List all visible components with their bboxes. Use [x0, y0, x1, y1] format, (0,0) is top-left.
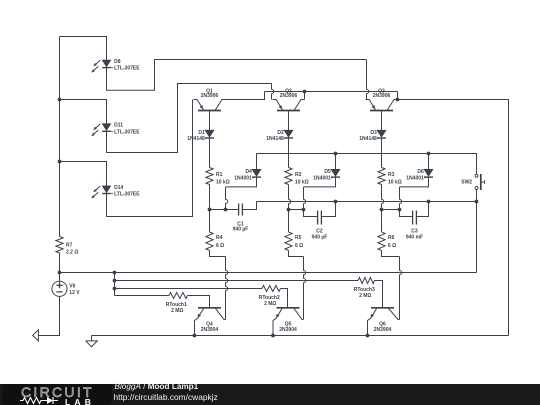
wire: cap rail — [257, 201, 477, 203]
diode D3 1N4148 — [377, 130, 386, 138]
svg-text:R6: R6 — [388, 235, 395, 241]
svg-text:D8: D8 — [114, 59, 121, 65]
resistor RTouch3 2M touch — [358, 278, 375, 284]
svg-text:LTL-307EE: LTL-307EE — [114, 66, 140, 72]
wire: rail to D6 — [428, 154, 430, 170]
wire: Q2 collector riser — [304, 92, 306, 100]
junction: Q2 collector / link rail — [303, 90, 307, 94]
junction: SW2 / cap rail — [475, 200, 479, 204]
svg-text:R2: R2 — [295, 172, 302, 178]
svg-text:1N4148: 1N4148 — [266, 136, 284, 142]
wire: touch rail 2 to RTouch3 — [115, 280, 359, 282]
wire: bottom ground rail — [92, 335, 509, 337]
wire: D5 jog — [304, 177, 336, 187]
svg-text:R4: R4 — [216, 235, 223, 241]
svg-text:D11: D11 — [114, 123, 123, 129]
wire: D8 cathode to Q3 emitter — [107, 60, 367, 91]
wire: button diode rail to SW2 — [257, 154, 477, 175]
wire: junction row to C1 — [210, 209, 239, 211]
svg-text:D14: D14 — [114, 185, 123, 191]
junction: D5 / cap node — [302, 208, 306, 212]
junction: touch rail 1 — [113, 271, 117, 275]
diode D2 1N4148 — [284, 130, 293, 138]
transistor Q1 2N3906 — [194, 100, 226, 111]
junction: R2/R5 node — [287, 208, 291, 212]
svg-text:2N3904: 2N3904 — [201, 327, 219, 333]
svg-text:RTouch2: RTouch2 — [259, 295, 280, 301]
svg-text:10 kΩ: 10 kΩ — [388, 179, 402, 185]
wire: touch feed riser — [114, 273, 116, 296]
wire: rail to D4 — [256, 154, 258, 170]
svg-text:940 mF: 940 mF — [406, 234, 423, 240]
wire: RTouch1 to Q base — [188, 296, 210, 308]
wire: drop to Q2 emitter (hop) — [272, 84, 274, 100]
transistor Q2 2N3906 — [273, 100, 305, 111]
wire: Q1 collector to link rail — [226, 92, 265, 100]
svg-text:940 µF: 940 µF — [233, 227, 249, 233]
diode D1 1N4148 — [205, 130, 214, 138]
resistor R5 6 ohm — [285, 232, 292, 251]
wire: to C2 — [304, 210, 318, 217]
wire: R2 to junction row (hop) — [289, 185, 291, 210]
svg-text:10 kΩ: 10 kΩ — [216, 179, 230, 185]
transistor Q5 2N3904 — [273, 308, 304, 336]
svg-text:6 Ω: 6 Ω — [388, 243, 396, 249]
svg-text:1N4148: 1N4148 — [187, 136, 205, 142]
wire: link rail drop to Q3 collector — [397, 92, 399, 100]
svg-text:12 V: 12 V — [69, 290, 80, 296]
svg-text:LTL-307EE: LTL-307EE — [114, 129, 140, 135]
svg-text:D5: D5 — [324, 169, 331, 175]
svg-text:2N3906: 2N3906 — [373, 93, 391, 99]
wire: junction to R6 — [381, 210, 383, 233]
svg-text:LTL-307EE: LTL-307EE — [114, 192, 140, 198]
wire: D1 to R1 — [209, 138, 211, 168]
svg-text:D4: D4 — [245, 169, 252, 175]
wire: stage2 junction link — [289, 209, 304, 211]
transistor Q4 2N3904 — [195, 308, 226, 336]
wire: R4 jog — [210, 251, 226, 257]
wire: column to Q5 collector (hops) — [304, 257, 306, 320]
wire: touch feed — [60, 272, 115, 274]
wire: collector link rail — [265, 91, 398, 93]
wire: R1 to junction row — [209, 185, 211, 210]
transistor Q3 2N3906 — [366, 100, 398, 111]
wire: C2 to cap rail — [322, 202, 336, 217]
wire: D14 rail — [60, 162, 107, 186]
wire: D4 jog — [226, 177, 257, 187]
svg-text:2 MΩ: 2 MΩ — [171, 308, 183, 314]
wire: stage3 junction link — [382, 209, 400, 211]
wire: C1 to cap rail — [243, 202, 257, 210]
wire: D14 cathode to Q1 emitter — [107, 100, 193, 217]
svg-text:1N4001: 1N4001 — [313, 176, 331, 182]
diode D5 1N4001 — [331, 169, 340, 177]
wire: D3 to R3 — [381, 138, 383, 168]
junction: R3/R6 node — [380, 208, 384, 212]
footer bar — [0, 384, 540, 405]
wire: junction to R4 — [209, 210, 211, 233]
junction: D6 / cap node — [398, 208, 402, 212]
wire: R7 to V6 — [59, 253, 61, 281]
wire: R5 jog — [289, 251, 304, 257]
svg-text:R5: R5 — [295, 235, 302, 241]
wire: D11 cathode to Q2 emitter — [107, 84, 272, 153]
resistor R3 10k — [378, 168, 385, 185]
wire: R3 to junction row (hop) — [382, 185, 384, 210]
wire: top rail to D8 anode — [60, 37, 107, 61]
svg-text:6 Ω: 6 Ω — [216, 243, 224, 249]
ground (left, rotated) — [33, 330, 39, 341]
junction: trunk / touch feed — [58, 271, 62, 275]
wire: collector rail to bottom right — [398, 100, 509, 336]
ground (bottom rail) — [86, 336, 98, 347]
svg-text:2N3906: 2N3906 — [280, 93, 298, 99]
svg-text:RTouch1: RTouch1 — [166, 302, 187, 308]
junction: Q3 collector / right rail — [396, 98, 400, 102]
svg-text:6 Ω: 6 Ω — [295, 243, 303, 249]
svg-text:2.2 Ω: 2.2 Ω — [66, 250, 78, 256]
svg-text:SW2: SW2 — [461, 180, 472, 186]
svg-text:2N3904: 2N3904 — [279, 327, 297, 333]
resistor RTouch1 2M touch — [169, 293, 188, 299]
svg-text:2 MΩ: 2 MΩ — [359, 293, 371, 299]
wire: D5 to junction (hop) — [304, 187, 306, 210]
svg-text:R3: R3 — [388, 172, 395, 178]
wire: column to Q6 collector (hop) — [400, 257, 402, 320]
svg-text:R1: R1 — [216, 172, 223, 178]
svg-text:RTouch3: RTouch3 — [354, 287, 375, 293]
wire: Q base to D2 — [288, 111, 290, 131]
svg-text:V6: V6 — [69, 283, 75, 289]
resistor R7 — [56, 237, 63, 254]
resistor R1 10k — [206, 168, 213, 185]
junction: Q6 emitter / ground rail — [366, 334, 370, 338]
junction: Q4 emitter / ground rail — [193, 334, 197, 338]
LED D11 LTL-307EE — [92, 124, 113, 136]
wire: to C3 — [400, 210, 413, 217]
wire: touch rail 1 to SW2 — [115, 272, 477, 274]
junction: cap rail / C3 — [427, 200, 431, 204]
junction: diode rail / D6 — [427, 152, 431, 156]
wire: D2 to R2 — [288, 138, 290, 168]
capacitor C1 940uF — [239, 204, 243, 216]
LED D8 LTL-307EE — [92, 60, 113, 72]
wire: touch rail 3 to RTouch2 — [115, 288, 263, 290]
wire: C3 to cap rail — [417, 202, 429, 217]
wire: Q base to D3 — [381, 111, 383, 131]
wire: D4 to junction (hop) — [226, 187, 228, 210]
LED D14 LTL-307EE — [92, 186, 113, 198]
resistor R4 6 ohm — [206, 232, 213, 251]
junction: Q5 emitter / ground rail — [271, 334, 275, 338]
diode D6 1N4001 — [424, 169, 433, 177]
junction: trunk / D14 rail — [58, 160, 62, 164]
wire: to RTouch1 — [115, 295, 170, 297]
wire: RTouch2 to Q base — [281, 289, 288, 308]
junction: trunk / D11 rail — [58, 98, 62, 102]
svg-text:10 kΩ: 10 kΩ — [295, 179, 309, 185]
svg-text:2 MΩ: 2 MΩ — [264, 301, 276, 307]
voltage source V6 12V — [52, 281, 67, 296]
wire: V+ trunk from top rail down to R7 — [59, 37, 61, 237]
wire: column to Q4 collector (hops) — [226, 257, 228, 320]
junction: R1/R4 node — [208, 208, 212, 212]
wire: RTouch3 to Q base — [375, 281, 383, 308]
junction: diode rail / D5 — [334, 152, 338, 156]
capacitor C3 940mF — [413, 211, 417, 225]
wire: D11 rail — [60, 100, 107, 124]
wire: junction to R5 — [288, 210, 290, 233]
transistor Q6 2N3904 — [368, 308, 400, 336]
svg-text:R7: R7 — [66, 242, 73, 248]
svg-text:2N3906: 2N3906 — [201, 93, 219, 99]
wire: SW2 down to touch rail — [476, 190, 478, 273]
wire: D6 jog — [400, 177, 429, 187]
svg-text:1N4001: 1N4001 — [234, 176, 252, 182]
junction: touch rail 3 — [113, 287, 117, 291]
svg-text:2N3904: 2N3904 — [374, 327, 392, 333]
svg-text:D6: D6 — [417, 169, 424, 175]
wire: D6 to junction (hop) — [400, 187, 402, 210]
wire: rail to D5 — [335, 154, 337, 170]
junction: cap rail / C2 — [334, 200, 338, 204]
resistor R6 6 ohm — [378, 232, 385, 251]
resistor R2 10k — [285, 168, 292, 185]
wire: V6 minus to ground — [38, 296, 59, 335]
wire: Q base to D1 — [209, 111, 211, 131]
svg-text:1N4148: 1N4148 — [359, 136, 377, 142]
wire: R6 jog — [382, 251, 400, 257]
wire: drop to Q3 emitter (hop) — [367, 60, 369, 100]
capacitor C2 940uF — [318, 211, 322, 225]
junction: touch rail 2 — [113, 279, 117, 283]
svg-text:940 µF: 940 µF — [312, 234, 328, 240]
resistor RTouch2 2M touch — [262, 286, 281, 292]
svg-text:1N4001: 1N4001 — [406, 176, 424, 182]
junction: D4 / cap node — [224, 208, 228, 212]
switch SW2 pushbutton — [475, 174, 485, 190]
diode D4 1N4001 — [252, 169, 261, 177]
